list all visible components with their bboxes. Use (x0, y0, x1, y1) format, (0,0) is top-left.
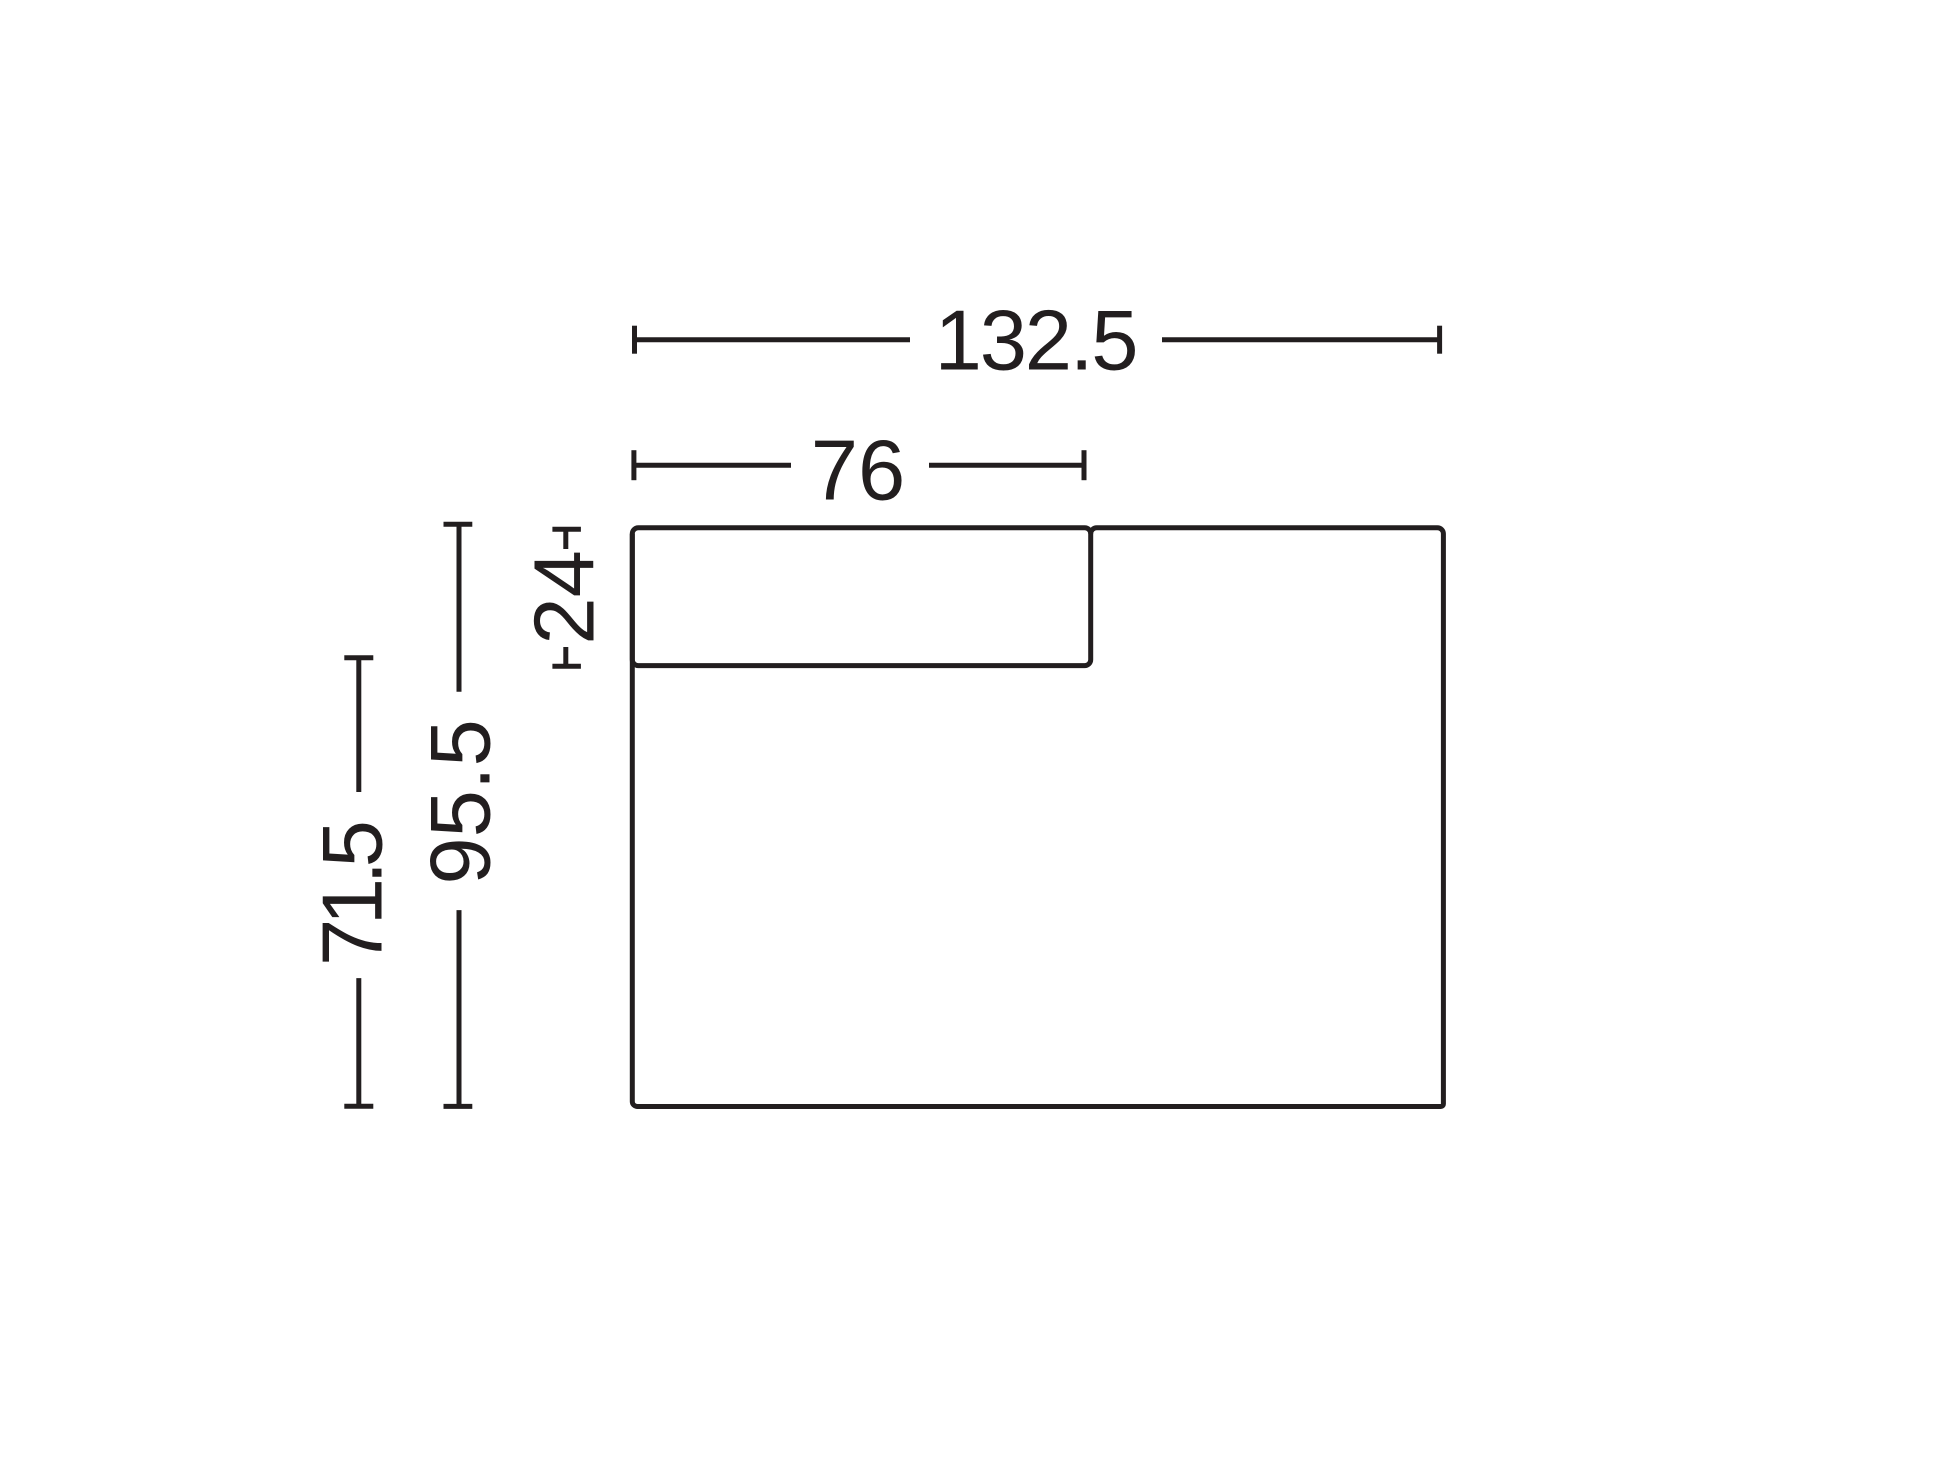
svg-text:24: 24 (518, 550, 613, 645)
svg-text:76: 76 (811, 424, 906, 519)
svg-text:95.5: 95.5 (413, 719, 508, 884)
svg-text:132.5: 132.5 (935, 294, 1137, 389)
svg-text:71.5: 71.5 (305, 823, 400, 966)
